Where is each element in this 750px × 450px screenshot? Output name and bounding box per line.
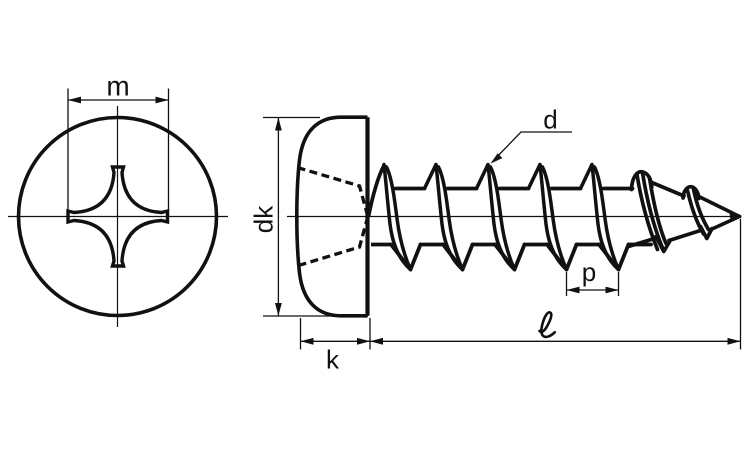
tip crest 6 band mid bbox=[643, 173, 663, 249]
first bottom root stub bbox=[371, 243, 391, 247]
tip crest 7 bottom V bbox=[701, 227, 713, 239]
k arrow right bbox=[357, 338, 370, 345]
k arrow left bbox=[301, 338, 314, 345]
phillips recess cross bbox=[68, 167, 168, 266]
tip crest 6 band left bbox=[637, 175, 658, 250]
centerline horizontal (front view) bbox=[8, 216, 228, 218]
thread 2 bbox=[436, 165, 495, 270]
dk dimension line bbox=[277, 118, 279, 317]
svg-text:dk: dk bbox=[249, 205, 279, 233]
svg-text:m: m bbox=[106, 71, 129, 102]
k extension right bbox=[369, 318, 371, 350]
l extension right bbox=[740, 219, 742, 350]
tip crest 6 bottom V bbox=[656, 237, 671, 252]
tip crest 7 hump bbox=[683, 187, 699, 199]
l dimension line bbox=[370, 340, 741, 342]
k dimension line bbox=[301, 340, 371, 342]
thread 1 bbox=[384, 165, 443, 270]
first thread start at head face bbox=[369, 165, 385, 217]
thread 3 left flank bbox=[477, 165, 489, 189]
hidden recess upper dashed line bbox=[298, 168, 368, 214]
p dimension line bbox=[567, 289, 619, 291]
p arrow right bbox=[606, 287, 619, 294]
tip point wedge bbox=[730, 213, 740, 222]
taper bottom segment B bbox=[669, 230, 702, 241]
svg-text:p: p bbox=[582, 257, 596, 287]
taper top segment B bbox=[699, 197, 740, 217]
l arrow left bbox=[370, 338, 383, 345]
tip crest 6 hump bbox=[632, 172, 652, 190]
dimension m: dimension line bbox=[68, 99, 169, 101]
tip crest 7 band left bbox=[688, 191, 704, 235]
thread 2 left flank bbox=[425, 165, 437, 189]
hidden recess lower dashed line bbox=[299, 220, 368, 266]
centerline vertical (front view) bbox=[117, 106, 119, 327]
head right face bbox=[365, 117, 369, 316]
thread 5 left flank bbox=[581, 165, 593, 189]
taper top segment A bbox=[652, 183, 684, 197]
tip crest 6 band right bbox=[650, 178, 667, 244]
thread 3 bbox=[488, 165, 547, 270]
d leader line bbox=[494, 132, 572, 160]
svg-text:k: k bbox=[326, 345, 340, 375]
dk arrow up bbox=[275, 118, 282, 131]
tip crest 7 band right bbox=[694, 189, 709, 230]
dk arrow down bbox=[275, 303, 282, 316]
thread 4 left flank bbox=[529, 165, 541, 189]
head outline circle (front view) bbox=[19, 118, 217, 316]
dimension m: extension lines bbox=[68, 89, 169, 218]
dk extension top bbox=[263, 117, 320, 119]
dk extension bottom bbox=[263, 315, 368, 317]
dimension m: right arrow bbox=[156, 97, 169, 104]
k extension left bbox=[300, 318, 302, 350]
svg-text:d: d bbox=[543, 105, 557, 135]
p extension lines bbox=[567, 272, 619, 296]
d leader arrow bbox=[491, 153, 503, 163]
label l (script ell) bbox=[540, 312, 555, 337]
p arrow left bbox=[567, 287, 580, 294]
taper bottom segment C bbox=[712, 217, 740, 230]
taper bottom segment A bbox=[629, 238, 657, 247]
head dome outline bbox=[297, 117, 368, 316]
thread 5 bbox=[592, 165, 651, 270]
centerline (side view) bbox=[287, 216, 741, 218]
thread 4 bbox=[540, 165, 599, 270]
l arrow right bbox=[728, 338, 741, 345]
dimension m: left arrow bbox=[68, 97, 81, 104]
